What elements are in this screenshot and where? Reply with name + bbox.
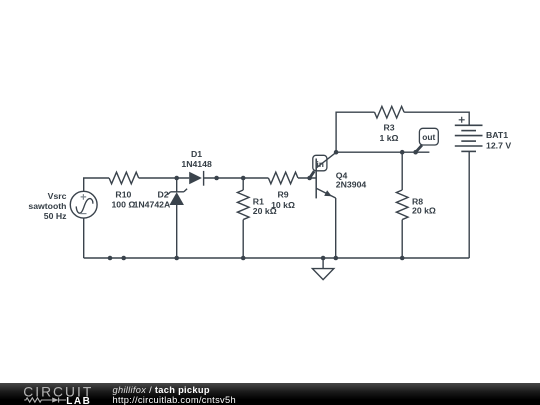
- label BAT1: [486, 130, 511, 151]
- label Vsrc name/value: [28, 191, 67, 221]
- zener diode D2: [167, 189, 187, 205]
- svg-text:50 Hz: 50 Hz: [44, 211, 67, 221]
- resistor R3: [375, 106, 405, 118]
- resistor R8: [396, 190, 408, 220]
- wire R8 bottom to bottom rail: [401, 220, 403, 258]
- resistor R10: [109, 172, 139, 184]
- label R8: [412, 196, 436, 215]
- node out: [413, 150, 418, 155]
- diode D1: [189, 171, 203, 186]
- junction D2 anode at rail: [174, 256, 179, 261]
- wire D2 top: [176, 178, 178, 192]
- junction R8 bottom at rail: [400, 256, 405, 261]
- wire R1 top: [242, 178, 244, 190]
- svg-text:D2: D2: [157, 189, 168, 199]
- wire from Vsrc top to R10: [84, 178, 109, 191]
- svg-text:10 kΩ: 10 kΩ: [271, 200, 295, 210]
- svg-text:1N4148: 1N4148: [181, 159, 212, 169]
- ground: [312, 258, 333, 280]
- resistor R1: [237, 190, 249, 220]
- junction wire joint on signal net: [214, 176, 219, 181]
- junction bottom rail joint 2: [121, 256, 126, 261]
- label R10: [111, 189, 135, 209]
- wire D1 cathode to R9: [204, 177, 269, 179]
- junction bottom rail joint 1: [108, 256, 113, 261]
- transistor Q4: [316, 152, 336, 198]
- svg-text:100 Ω: 100 Ω: [111, 199, 135, 209]
- CircuitLab logo: [0, 383, 100, 405]
- junction R1 top: [241, 176, 246, 181]
- resistor R9: [268, 172, 298, 184]
- label D2: [134, 189, 171, 209]
- wire bottom rail: [84, 257, 470, 259]
- svg-text:BAT1: BAT1: [486, 130, 508, 140]
- junction D1 anode / D2 cathode: [174, 176, 179, 181]
- svg-text:D1: D1: [191, 149, 202, 159]
- svg-text:12.7 V: 12.7 V: [486, 140, 511, 150]
- label R9: [271, 189, 295, 209]
- svg-text:LAB: LAB: [66, 396, 91, 405]
- svg-text:out: out: [422, 132, 435, 142]
- flag in: [310, 155, 327, 178]
- svg-text:20 kΩ: 20 kΩ: [412, 206, 436, 216]
- svg-text:1N4742A: 1N4742A: [134, 199, 171, 209]
- battery BAT1: [455, 117, 483, 152]
- wire R1 bottom to bottom rail: [242, 220, 244, 258]
- svg-text:R10: R10: [115, 189, 131, 199]
- label R1: [253, 196, 277, 216]
- wire collector up to top rail: [336, 112, 374, 152]
- junction Q4 emitter at rail: [334, 256, 339, 261]
- wire R8 top: [401, 152, 403, 190]
- svg-text:R3: R3: [383, 123, 394, 133]
- label R3: [379, 123, 398, 143]
- svg-text:R1: R1: [253, 196, 264, 206]
- wire Vsrc bottom to bottom rail: [83, 218, 85, 258]
- svg-text:1 kΩ: 1 kΩ: [379, 133, 398, 143]
- wire R3 right to battery top: [404, 112, 469, 125]
- junction ground stem at rail: [321, 256, 326, 261]
- flag out: [416, 128, 439, 152]
- svg-text:2N3904: 2N3904: [336, 180, 367, 190]
- svg-text:Vsrc: Vsrc: [48, 191, 67, 201]
- svg-text:R9: R9: [277, 189, 288, 199]
- junction Q4 collector: [334, 150, 339, 155]
- label Q4: [336, 170, 367, 189]
- svg-text:sawtooth: sawtooth: [28, 201, 66, 211]
- junction R8 top: [400, 150, 405, 155]
- wire R9 to Q4 base: [298, 177, 316, 179]
- label D1: [181, 149, 212, 169]
- wire battery bottom to bottom rail: [468, 151, 470, 258]
- footer bar: [0, 383, 540, 405]
- junction R1 bottom at rail: [241, 256, 246, 261]
- wire collector run to out stub: [336, 151, 429, 153]
- wire R10 right to D1 anode node: [139, 177, 190, 179]
- wire Q4 emitter down to bottom rail: [335, 198, 337, 258]
- voltage source Vsrc: [70, 191, 97, 218]
- node in (Q4 base): [307, 176, 312, 181]
- wire D2 bottom to bottom rail: [176, 205, 178, 258]
